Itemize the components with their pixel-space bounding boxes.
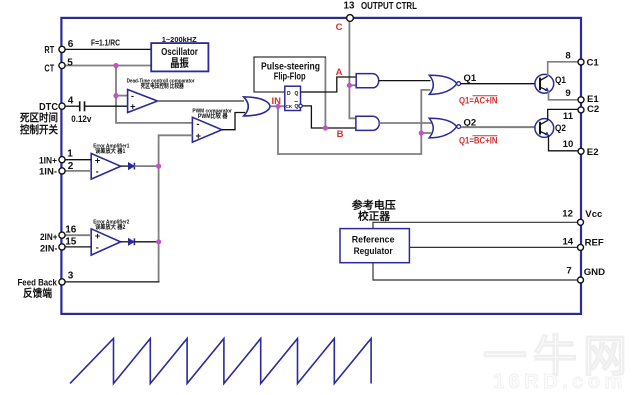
wire regulator to pin REF (409, 246, 579, 248)
pin 8 C1 (565, 50, 599, 68)
NOR gate 1 (429, 75, 460, 94)
junction on B wire (323, 125, 328, 130)
svg-text:误差放大 器1: 误差放大 器1 (95, 147, 126, 155)
pin 16 (40, 225, 77, 243)
pin 2 (39, 161, 74, 177)
wire Q2 collector to pin C2 (548, 109, 579, 120)
wire A: flip-flop Q to AND1 (301, 77, 357, 92)
error amplifier 2 (91, 219, 129, 255)
Q2 output label (464, 118, 477, 129)
junction EA1 output on feedback net (156, 164, 161, 169)
pin 12 Vcc (562, 208, 603, 225)
pin 15 (40, 236, 77, 253)
wire capacitor to dead-time comparator plus input (85, 105, 128, 107)
pin 3 (18, 270, 74, 287)
svg-text:Feed Back: Feed Back (18, 276, 58, 287)
wire AND1 output to NOR1 (379, 80, 431, 82)
svg-text:F=1.1/RC: F=1.1/RC (91, 39, 120, 48)
wire: pulse box right edge net down to B (324, 58, 326, 128)
Q1 output label (464, 73, 477, 84)
svg-text:Q1: Q1 (555, 75, 566, 85)
svg-text:RT: RT (44, 45, 54, 56)
wire diode D1 to feedback net (135, 165, 159, 167)
svg-text:14: 14 (562, 237, 573, 248)
diode D2 (128, 238, 134, 245)
svg-text:GND: GND (584, 267, 605, 278)
svg-text:2IN-: 2IN- (40, 242, 58, 253)
svg-text:A: A (336, 67, 343, 78)
svg-text:1: 1 (67, 149, 73, 160)
pin 10 E2 (563, 139, 599, 158)
value label F=1.1/RC (91, 39, 120, 48)
pin 7 GND (566, 265, 605, 283)
pulse-steering flip-flop block (254, 57, 325, 92)
pin 1 (39, 149, 73, 166)
svg-text:C: C (336, 22, 343, 33)
svg-text:4: 4 (68, 95, 74, 106)
wire AND2 output to NOR2 (379, 122, 433, 124)
error amplifier 1 (91, 143, 129, 179)
wire regulator to pin GND (373, 263, 579, 280)
svg-text:Q1=BC+IN: Q1=BC+IN (459, 136, 498, 146)
NOR gate 2 (429, 118, 460, 138)
OR gate U3 (244, 97, 270, 116)
wire B: flip-flop Qbar to AND2 (302, 106, 356, 128)
feedback chinese label (23, 287, 52, 300)
svg-text:+: + (95, 231, 101, 242)
wire EA2 output to diode D2 (121, 241, 129, 243)
svg-text:B: B (337, 129, 344, 140)
svg-text:15: 15 (65, 236, 77, 247)
AND gate 2 (356, 116, 379, 130)
svg-text:10: 10 (563, 139, 574, 150)
svg-text:反馈端: 反馈端 (23, 287, 52, 300)
equation Q1=BC+IN (459, 136, 498, 146)
svg-text:OUTPUT CTRL: OUTPUT CTRL (361, 1, 417, 12)
wire pin15 to EA2 minus (64, 246, 91, 248)
svg-text:6: 6 (68, 39, 74, 50)
junction on CT line (113, 63, 118, 68)
svg-text:-: - (197, 119, 200, 129)
junction EA2 output on feedback net (156, 239, 161, 244)
svg-text:Q: Q (295, 104, 299, 110)
watermark (483, 332, 633, 393)
svg-text:1IN-: 1IN- (39, 166, 57, 177)
AND gate 1 (356, 74, 378, 88)
reference regulator block (340, 229, 409, 263)
diode D1 (128, 163, 134, 170)
wire regulator to pin Vcc (373, 222, 579, 228)
oscillator block (151, 43, 208, 71)
svg-text:+: + (196, 131, 202, 142)
wire PWM comparator output to OR gate (222, 113, 245, 130)
junction IN at NOR2 input (419, 130, 424, 135)
wire: CT branch down to comparators (116, 66, 192, 123)
wire pin2 to EA1 minus (64, 170, 91, 172)
svg-text:晶振: 晶振 (170, 56, 189, 69)
sawtooth waveform (70, 339, 371, 384)
svg-text:1IN+: 1IN+ (39, 154, 57, 165)
transistor Q2 (535, 119, 566, 138)
svg-text:2: 2 (68, 161, 74, 172)
svg-text:Reference: Reference (352, 235, 395, 246)
svg-text:Q2: Q2 (555, 123, 566, 133)
wire pin16 to EA2 plus (64, 234, 91, 236)
svg-text:Regulator: Regulator (354, 246, 393, 257)
wire Q1 emitter to pin E1 (549, 91, 580, 100)
dead-time control comparator U1 (127, 79, 196, 113)
junction on C net at AND1 input (347, 83, 352, 88)
oscillator value 1~200kHZ (162, 35, 197, 44)
wire RT pin6 to oscillator (64, 48, 151, 50)
capacitor 0.12v (71, 101, 92, 125)
wire: feedback net vertical to PWM plus input (159, 135, 193, 282)
svg-text:0.12v: 0.12v (71, 114, 92, 125)
wire CT pin5 to oscillator (64, 65, 151, 67)
svg-text:Q: Q (295, 91, 299, 97)
svg-text:13: 13 (344, 1, 355, 12)
wire: IN net tee to NOR2 lower input (421, 132, 431, 134)
svg-text:Vcc: Vcc (585, 209, 603, 220)
svg-text:C2: C2 (587, 104, 599, 115)
pin 6 (44, 39, 73, 56)
node IN label (272, 96, 282, 107)
pin 11 C2 (563, 104, 599, 122)
wire OR output to flip-flop clock (271, 105, 285, 107)
svg-text:-: - (96, 242, 99, 252)
pin 13 (347, 15, 354, 22)
IC outline box (61, 18, 581, 314)
svg-text:12: 12 (562, 208, 573, 219)
svg-text:+: + (95, 156, 101, 167)
wire Q1 collector to pin C1 (548, 62, 579, 76)
svg-text:Q1: Q1 (464, 73, 477, 84)
PWM comparator U2 (192, 109, 232, 143)
svg-text:误差放大 器2: 误差放大 器2 (95, 223, 126, 231)
svg-text:死区电压控制 比较器: 死区电压控制 比较器 (140, 82, 184, 90)
svg-text:E2: E2 (587, 147, 599, 158)
svg-text:PWM比较 器: PWM比较 器 (198, 112, 228, 120)
svg-text:3: 3 (68, 270, 74, 281)
svg-text:-: - (131, 91, 134, 101)
junction IN node (275, 104, 280, 109)
pin 14 REF (562, 237, 603, 251)
transistor Q1 (535, 74, 566, 93)
svg-text:控制开关: 控制开关 (20, 123, 58, 136)
svg-text:CT: CT (44, 63, 54, 74)
wire: IN net down and right to NOR gates (278, 90, 430, 154)
svg-text:死区时间: 死区时间 (19, 111, 58, 124)
svg-text:D: D (287, 91, 291, 97)
wire EA1 output to diode D1 (121, 165, 129, 167)
svg-text:11: 11 (563, 111, 574, 122)
node A label (336, 67, 343, 78)
wire DTC pin4 to capacitor (64, 105, 79, 107)
node C label (336, 22, 343, 33)
svg-text:9: 9 (565, 88, 570, 99)
svg-text:CK: CK (286, 104, 293, 109)
wire pin3 feedback (64, 281, 159, 283)
svg-text:-: - (96, 167, 99, 177)
pin 5 (44, 57, 73, 74)
pin 4 (39, 95, 74, 113)
reference regulator labels (352, 199, 397, 223)
wire NOR2 output to transistor Q2 base (461, 126, 539, 128)
wire NOR1 output to transistor Q1 base (461, 83, 539, 85)
node B label (337, 129, 344, 140)
svg-text:8: 8 (565, 50, 571, 61)
pin 13 label OUTPUT CTRL (344, 1, 417, 12)
svg-text:Oscillator: Oscillator (161, 47, 198, 58)
pin 9 E1 (565, 88, 599, 105)
equation Q1=AC+IN (459, 96, 498, 106)
svg-text:7: 7 (566, 265, 571, 276)
wire diode D2 to feedback net (135, 241, 159, 243)
wire: C tee to AND1 lower input (349, 84, 356, 86)
svg-text:16: 16 (65, 225, 77, 236)
svg-text:Q1=AC+IN: Q1=AC+IN (459, 96, 498, 106)
wire Q2 emitter to pin E2 (549, 135, 580, 151)
wire: CT branch tee to dead-time comparator minus input (116, 95, 128, 97)
junction at dead-time minus branch (113, 93, 118, 98)
svg-text:5: 5 (67, 57, 73, 68)
svg-text:REF: REF (585, 238, 604, 249)
svg-text:Flip-Flop: Flip-Flop (274, 72, 306, 83)
wire: C net from pin 13 down to AND2 (349, 21, 356, 118)
svg-text:2IN+: 2IN+ (40, 231, 58, 242)
wire dead-time comparator output to OR gate (158, 100, 245, 102)
DTC chinese label (19, 111, 58, 136)
flip-flop U4 (285, 86, 303, 110)
svg-text:校正器: 校正器 (358, 209, 391, 222)
svg-text:16RD.com: 16RD.com (493, 371, 627, 393)
svg-text:C1: C1 (587, 58, 600, 69)
wire pin1 to EA1 plus (64, 159, 91, 161)
svg-text:+: + (130, 101, 136, 112)
